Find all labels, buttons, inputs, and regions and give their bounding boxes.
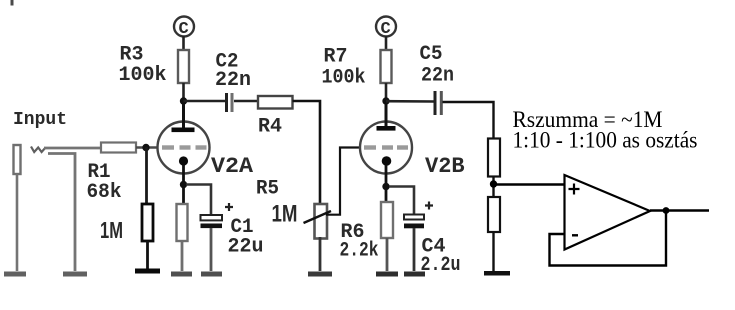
label 1M (pot) [272,201,298,228]
cable squiggle [31,147,46,153]
wire plate node V2B to C5 [386,100,434,103]
label R1 [88,161,111,184]
label 2.2k [340,240,379,263]
label Rszumma [513,107,663,132]
svg-text:68k: 68k [87,181,122,204]
svg-text:100k: 100k [119,64,167,87]
wire feedback [550,211,667,266]
supply symbol C (left) [174,17,194,40]
wire upper R to node [492,177,494,198]
wire R6 to ground [386,238,389,271]
label 2.2u [421,254,461,277]
label V2B [425,154,465,179]
node plate junction V2A [180,97,187,104]
ground (divider) [484,271,510,276]
label 22n (C2) [215,69,251,92]
capacitor C4 [404,202,433,272]
label C4 [422,236,446,259]
label 68k [87,181,122,204]
resistor R7 [381,50,392,83]
ground (pot) [308,272,332,277]
label C5 [420,43,443,66]
ground (sleeve) [63,272,87,277]
svg-text:R4: R4 [258,116,282,139]
ground (C1) [201,272,222,277]
wire R4 to pot [293,101,321,203]
supply symbol C (right) [376,17,396,40]
op-amp U1 [565,175,651,250]
label C1 [231,216,254,239]
jack J1 [14,145,21,271]
label R4 [258,116,282,139]
label R5 [256,178,279,201]
label 22n (C5) [421,65,454,88]
capacitor C2 [227,93,233,112]
wire C5 to divider [443,102,494,139]
ground (cathode R V2A) [171,272,192,277]
svg-text:1M: 1M [272,201,298,228]
label R6 [341,221,365,244]
capacitor C1 [201,203,234,271]
wire pot to ground [319,237,322,271]
node divider tap [490,180,497,187]
svg-text:100k: 100k [322,67,366,90]
label 100k [119,64,167,87]
svg-text:22n: 22n [421,65,454,88]
triode V2A [158,101,210,204]
wire cathode to C1 [186,185,211,217]
svg-text:1M: 1M [100,217,123,243]
svg-text:2.2k: 2.2k [340,240,379,263]
wire lower R to ground [492,232,494,272]
potentiometer R5 [304,148,361,239]
label divider ratio [513,128,698,153]
wire op-amp output [650,209,709,211]
ground (1M) [135,269,160,274]
label Input [13,110,67,130]
wire supply to R3 [182,36,185,50]
node cathode junction V2B [382,183,389,190]
node cathode junction V2A [180,181,187,188]
wire R3 to plate node [182,83,185,101]
resistor cathode V2A [177,204,188,241]
wire tap to op-amp [494,183,565,185]
wire plate node to C2 [184,100,226,103]
wire junction down to 1M [145,147,148,204]
resistor R1 [101,143,136,153]
svg-text:C5: C5 [420,43,443,66]
ground (C4) [404,272,425,277]
wire R1 to grid [136,146,158,149]
wire jack sleeve to ground [48,154,75,272]
wire cathode to C4 [389,187,414,216]
ground (R6) [376,272,398,277]
ground (jack) [4,272,26,277]
svg-text:22n: 22n [215,69,251,92]
wire cathode R to ground [181,241,184,271]
wire supply to R7 [385,36,388,50]
label 22u [228,236,264,259]
resistor R4 [258,96,293,109]
node output [663,207,670,214]
svg-text:R7: R7 [324,46,348,69]
label R7 [324,46,348,69]
label C2 [216,51,239,74]
svg-text:R5: R5 [256,178,279,201]
label R3 [120,44,144,67]
capacitor C5 [435,91,441,115]
node grid junction [142,144,149,151]
label 100k (R7) [322,67,366,90]
resistor divider lower [488,197,500,232]
svg-text:V2A: V2A [211,154,254,179]
label V2A [211,154,254,179]
svg-text:1:10 - 1:100 as osztás: 1:10 - 1:100 as osztás [513,128,698,153]
node plate junction V2B [382,97,389,104]
svg-text:V2B: V2B [425,154,465,179]
wire C2 to R4 [234,100,258,103]
triode V2B [360,101,412,202]
label 1M [100,217,123,243]
resistor divider upper [488,139,500,177]
wire 1M to ground [146,241,149,269]
stray mark top-left [11,0,14,6]
wire input to R1 [44,147,101,150]
svg-text:22u: 22u [228,236,264,259]
resistor R3 [178,50,189,83]
resistor R6 [381,202,393,238]
svg-text:Input: Input [13,110,67,130]
wire R7 to plate node [385,83,388,101]
svg-text:2.2u: 2.2u [421,254,461,277]
resistor 1M (grid leak) [142,204,153,241]
